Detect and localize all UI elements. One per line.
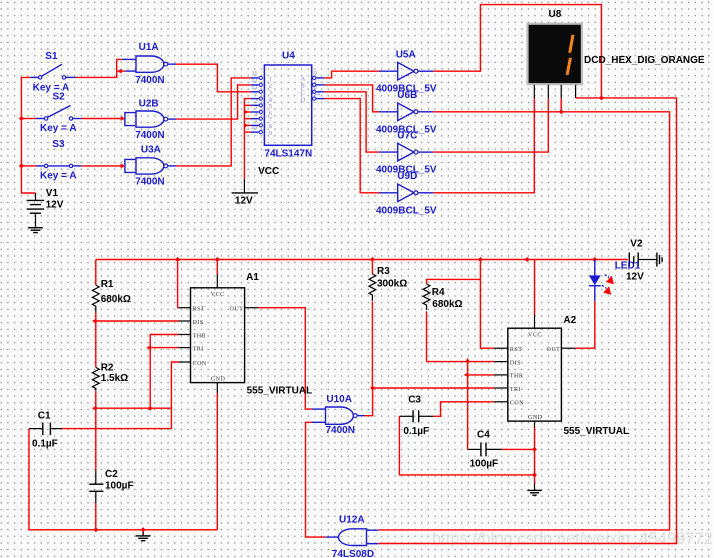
svg-text:1: 1 <box>269 77 272 83</box>
svg-text:5: 5 <box>269 104 272 110</box>
svg-text:DIS: DIS <box>193 320 204 326</box>
wire U2B out to U4 pin12 <box>176 85 250 119</box>
wire R2 row dogleg to C1 <box>62 408 172 428</box>
wire DIS THR column to C4 <box>467 362 470 450</box>
U4 pin numbers right <box>314 71 320 98</box>
node R3 TRI junction <box>370 386 375 391</box>
svg-text:680kΩ: 680kΩ <box>101 294 131 305</box>
svg-text:S2: S2 <box>53 91 66 102</box>
node R2 bottom arrow <box>92 406 97 411</box>
capacitor C3 0.1uF <box>399 410 433 422</box>
node U3A input arrow <box>121 164 126 169</box>
svg-text:A2: A2 <box>563 315 576 326</box>
svg-text:U6B: U6B <box>397 90 417 101</box>
switch S1 <box>30 64 75 79</box>
svg-text:7400N: 7400N <box>135 130 164 141</box>
svg-text:https://blog.csdn.net/weixin_4: https://blog.csdn.net/weixin_45499772 <box>432 530 713 548</box>
resistor R2 1.5k <box>92 367 99 408</box>
resistor R1 680k <box>92 260 99 322</box>
node TRI arrow <box>146 345 151 350</box>
IC A2 555_VIRTUAL <box>494 315 575 428</box>
wire U4 pin2 stub <box>244 104 250 106</box>
node gnd row junction <box>532 472 537 477</box>
svg-text:GND: GND <box>528 415 543 421</box>
wire U4 B to U6B <box>325 85 379 112</box>
svg-text:U4: U4 <box>282 51 295 62</box>
wire A2 CON to C3 <box>433 402 494 417</box>
svg-text:V2: V2 <box>630 239 643 250</box>
svg-text:U10A: U10A <box>326 394 352 405</box>
battery V2 <box>629 253 657 267</box>
svg-text:VCC: VCC <box>258 166 279 177</box>
svg-text:VCC: VCC <box>528 333 542 339</box>
U4 left pin bubbles and leads <box>251 76 263 133</box>
U4 inner output letters <box>301 77 306 104</box>
node U4 pin3 arrow <box>244 110 249 115</box>
svg-text:C3: C3 <box>408 394 421 405</box>
svg-text:12: 12 <box>251 78 257 84</box>
resistor R3 300k <box>369 260 376 389</box>
svg-text:R1: R1 <box>101 279 114 290</box>
svg-text:U7C: U7C <box>397 131 417 142</box>
svg-text:CON: CON <box>193 361 207 367</box>
svg-text:7400N: 7400N <box>135 177 164 188</box>
wire C4 right to gnd column <box>502 448 534 450</box>
ground below A2 <box>527 484 541 496</box>
node rail A2RST <box>478 257 483 262</box>
inverter U6B 4009BCL_5V <box>379 103 433 121</box>
capacitor C1 0.1uF <box>29 423 62 436</box>
node rail R3 <box>370 257 375 262</box>
wire U4 pin5 stub <box>244 124 250 126</box>
svg-text:VCC: VCC <box>211 292 225 298</box>
node S3 tap <box>19 163 24 168</box>
svg-text:4009BCL_5V: 4009BCL_5V <box>376 205 437 216</box>
svg-text:R3: R3 <box>377 266 390 277</box>
wire A2 OUT to LED <box>575 301 594 348</box>
svg-text:U9D: U9D <box>397 171 417 182</box>
svg-text:S1: S1 <box>45 51 58 62</box>
svg-text:V1: V1 <box>46 188 59 199</box>
node rail A1RST <box>175 257 180 262</box>
node R1 DIS arrow <box>92 319 97 324</box>
wire U7C out to display pin2 <box>433 98 548 152</box>
wire rail to A1 VCC <box>216 260 218 275</box>
svg-text:6: 6 <box>269 111 272 117</box>
svg-text:R2: R2 <box>101 363 114 374</box>
svg-text:TRI: TRI <box>193 346 204 352</box>
svg-text:11: 11 <box>252 71 258 77</box>
svg-text:7400N: 7400N <box>326 425 355 436</box>
wire U10A out up to TRI row <box>365 388 373 416</box>
resistor R4 680k <box>423 279 480 361</box>
svg-text:555_VIRTUAL: 555_VIRTUAL <box>247 386 313 397</box>
wire U3A input loop <box>125 159 136 172</box>
svg-text:RST: RST <box>510 347 523 353</box>
capacitor C4 100uF <box>468 443 502 457</box>
gate U2B 7400N <box>136 111 176 127</box>
A2 pin labels <box>510 333 560 421</box>
LED arrows <box>602 275 614 295</box>
gate U10A 7400N <box>312 407 365 424</box>
inverter U5A 4009BCL_5V <box>379 62 433 80</box>
gate U3A 7400N <box>136 158 176 174</box>
node U2B input arrow <box>121 116 126 121</box>
svg-text:Key = A: Key = A <box>40 170 77 181</box>
wire S1 to U1A <box>76 59 123 77</box>
svg-text:GND: GND <box>211 376 226 382</box>
wire S2 to U2B <box>81 118 121 120</box>
wire A1 OUT to U10A input1 <box>258 308 312 409</box>
svg-text:4: 4 <box>269 97 272 103</box>
battery V1 <box>27 193 45 228</box>
svg-text:0.1µF: 0.1µF <box>32 439 58 450</box>
ground right of V2 <box>657 253 662 267</box>
wire A1 GND down <box>216 393 218 529</box>
wire U4 pin3 stub <box>244 111 250 113</box>
svg-text:1.5kΩ: 1.5kΩ <box>101 373 128 384</box>
wire left bus to S2 <box>21 118 36 120</box>
node C4 junction <box>532 447 537 452</box>
node S2 tap <box>19 116 24 121</box>
svg-text:A1: A1 <box>246 272 259 283</box>
svg-text:2: 2 <box>269 84 272 90</box>
IC A1 555_VIRTUAL <box>179 274 259 393</box>
power VCC symbol <box>232 179 258 193</box>
svg-text:C4: C4 <box>477 430 490 441</box>
svg-text:DIS: DIS <box>510 360 521 366</box>
gate U1A 7400N <box>122 56 176 72</box>
node pin4/U5A junction <box>599 95 604 100</box>
wire CON drop <box>171 362 178 408</box>
wire THR TRI column <box>150 335 178 409</box>
wire C3 left down to gnd row <box>399 416 534 475</box>
svg-text:A: A <box>301 77 306 83</box>
wire U4 unused input bundle to VCC <box>244 99 250 179</box>
wire S3 to U3A <box>81 165 121 167</box>
svg-text:U8: U8 <box>549 9 562 20</box>
node THRTRI column junction <box>148 406 153 411</box>
svg-text:8: 8 <box>269 124 272 130</box>
svg-text:680kΩ: 680kΩ <box>432 299 462 310</box>
svg-text:THR: THR <box>510 374 524 380</box>
svg-text:C: C <box>301 91 305 97</box>
node A2 THR arrow <box>464 373 469 378</box>
wire TRI row A2 <box>373 387 495 389</box>
svg-text:U1A: U1A <box>139 42 159 53</box>
wire left bus vertical S1..V1 <box>21 77 35 193</box>
node rail LED <box>592 257 597 262</box>
svg-text:C1: C1 <box>38 411 51 422</box>
gate U12A 74LS08D mirrored <box>325 529 378 546</box>
display U8 pins <box>534 85 575 98</box>
svg-text:100µF: 100µF <box>105 480 134 491</box>
wire R4 to A2 DIS <box>427 361 495 363</box>
svg-text:7: 7 <box>269 118 272 124</box>
svg-text:U12A: U12A <box>339 515 365 526</box>
LED LED1 <box>589 260 601 302</box>
svg-text:74LS147N: 74LS147N <box>264 149 312 160</box>
wire VCC main rail <box>96 259 628 261</box>
svg-text:12V: 12V <box>235 196 253 207</box>
wire display pin3 drop <box>560 98 562 112</box>
svg-text:12V: 12V <box>626 271 644 282</box>
svg-text:THR: THR <box>193 333 207 339</box>
wire U4 D to U9D <box>325 99 379 193</box>
svg-text:R4: R4 <box>432 287 445 298</box>
wire rail to A2 RST column <box>480 260 494 349</box>
svg-text:0.1µF: 0.1µF <box>403 426 429 437</box>
svg-text:Key = A: Key = A <box>40 123 77 134</box>
node rail A2VCC <box>525 257 530 262</box>
svg-text:13: 13 <box>251 85 257 91</box>
svg-text:CON: CON <box>510 401 524 407</box>
svg-text:U3A: U3A <box>141 145 161 156</box>
svg-text:U5A: U5A <box>396 49 416 60</box>
node rail A1VCC <box>215 257 220 262</box>
wire U1A input B stub <box>118 70 125 72</box>
svg-text:D: D <box>301 97 306 103</box>
wire U2B input loop <box>125 113 136 126</box>
wire U9D out to display pin1 <box>433 98 534 193</box>
svg-text:S3: S3 <box>52 139 65 150</box>
wire A2 GND column <box>534 428 536 484</box>
wire R1 to A1 DIS <box>96 320 179 322</box>
wire R1R2 link <box>95 321 97 367</box>
svg-text:3: 3 <box>269 91 272 97</box>
node bottom rail gnd <box>141 527 146 532</box>
svg-text:12V: 12V <box>46 200 64 211</box>
svg-text:TRI: TRI <box>510 387 521 393</box>
switch S3 <box>36 164 81 167</box>
node DIS arrow up <box>465 358 470 363</box>
wire U6B out long to U12A upper <box>378 112 669 530</box>
ground bottom left <box>136 530 151 541</box>
node bottom rail C2 <box>93 527 98 532</box>
inverter U9D 4009BCL_5V <box>379 184 433 202</box>
wire rail to A2 VCC <box>534 260 536 315</box>
U4 inner input numbers <box>269 77 272 137</box>
IC U4 74LS147N <box>264 65 311 145</box>
wire U4 pin4 stub <box>244 118 250 120</box>
wire left bus to S3 <box>21 165 36 167</box>
svg-text:LED1: LED1 <box>615 261 641 272</box>
svg-text:300kΩ: 300kΩ <box>377 278 407 289</box>
display U8 DCD_HEX_DIG_ORANGE <box>528 24 582 84</box>
wire U4 pin10 stub <box>244 131 250 133</box>
svg-text:OUT: OUT <box>547 347 561 353</box>
node pin3 junction <box>559 109 564 114</box>
capacitor C2 100uF <box>89 470 103 503</box>
wire TRI stub <box>150 347 178 349</box>
inverter U7C 4009BCL_5V <box>379 143 433 161</box>
wire U5A out to display pin4 rail <box>433 5 601 98</box>
wire display pin4 to outer bus <box>378 98 676 544</box>
wire U10A input2 down to U12A out <box>306 422 326 537</box>
wire U4 A to U5A <box>325 71 379 78</box>
svg-text:100µF: 100µF <box>470 459 499 470</box>
node U1A input B arrow <box>117 69 122 74</box>
svg-text:7400N: 7400N <box>135 75 164 86</box>
svg-text:RST: RST <box>193 307 206 313</box>
wire U3A out to U4 pin11 <box>176 78 250 166</box>
wire THR stub A2 <box>468 374 495 376</box>
wire C2 to bottom rail <box>95 503 97 530</box>
wire U4 C to U7C <box>325 92 379 152</box>
ground below V1 <box>28 228 43 233</box>
svg-text:DCD_HEX_DIG_ORANGE: DCD_HEX_DIG_ORANGE <box>584 55 705 66</box>
U4 pin numbers left <box>251 71 257 131</box>
wire C1 left down to bottom rail <box>29 429 217 530</box>
svg-text:555_VIRTUAL: 555_VIRTUAL <box>564 426 630 437</box>
svg-text:OUT: OUT <box>230 307 244 313</box>
svg-text:9: 9 <box>269 131 272 137</box>
svg-text:U2B: U2B <box>139 99 159 110</box>
svg-text:B: B <box>301 84 305 90</box>
svg-text:C2: C2 <box>105 469 118 480</box>
wire rail to A1 RST <box>177 260 180 308</box>
U4 right pin bubbles and leads <box>313 76 325 100</box>
node U4 pin5 arrow <box>244 123 249 128</box>
svg-text:74LS08D: 74LS08D <box>332 549 374 558</box>
wire U1A out to U4 pin13 <box>176 64 250 92</box>
A1 pin labels <box>193 292 244 382</box>
wire R2 bottom to C2 <box>95 408 97 470</box>
switch S2 <box>36 106 81 121</box>
